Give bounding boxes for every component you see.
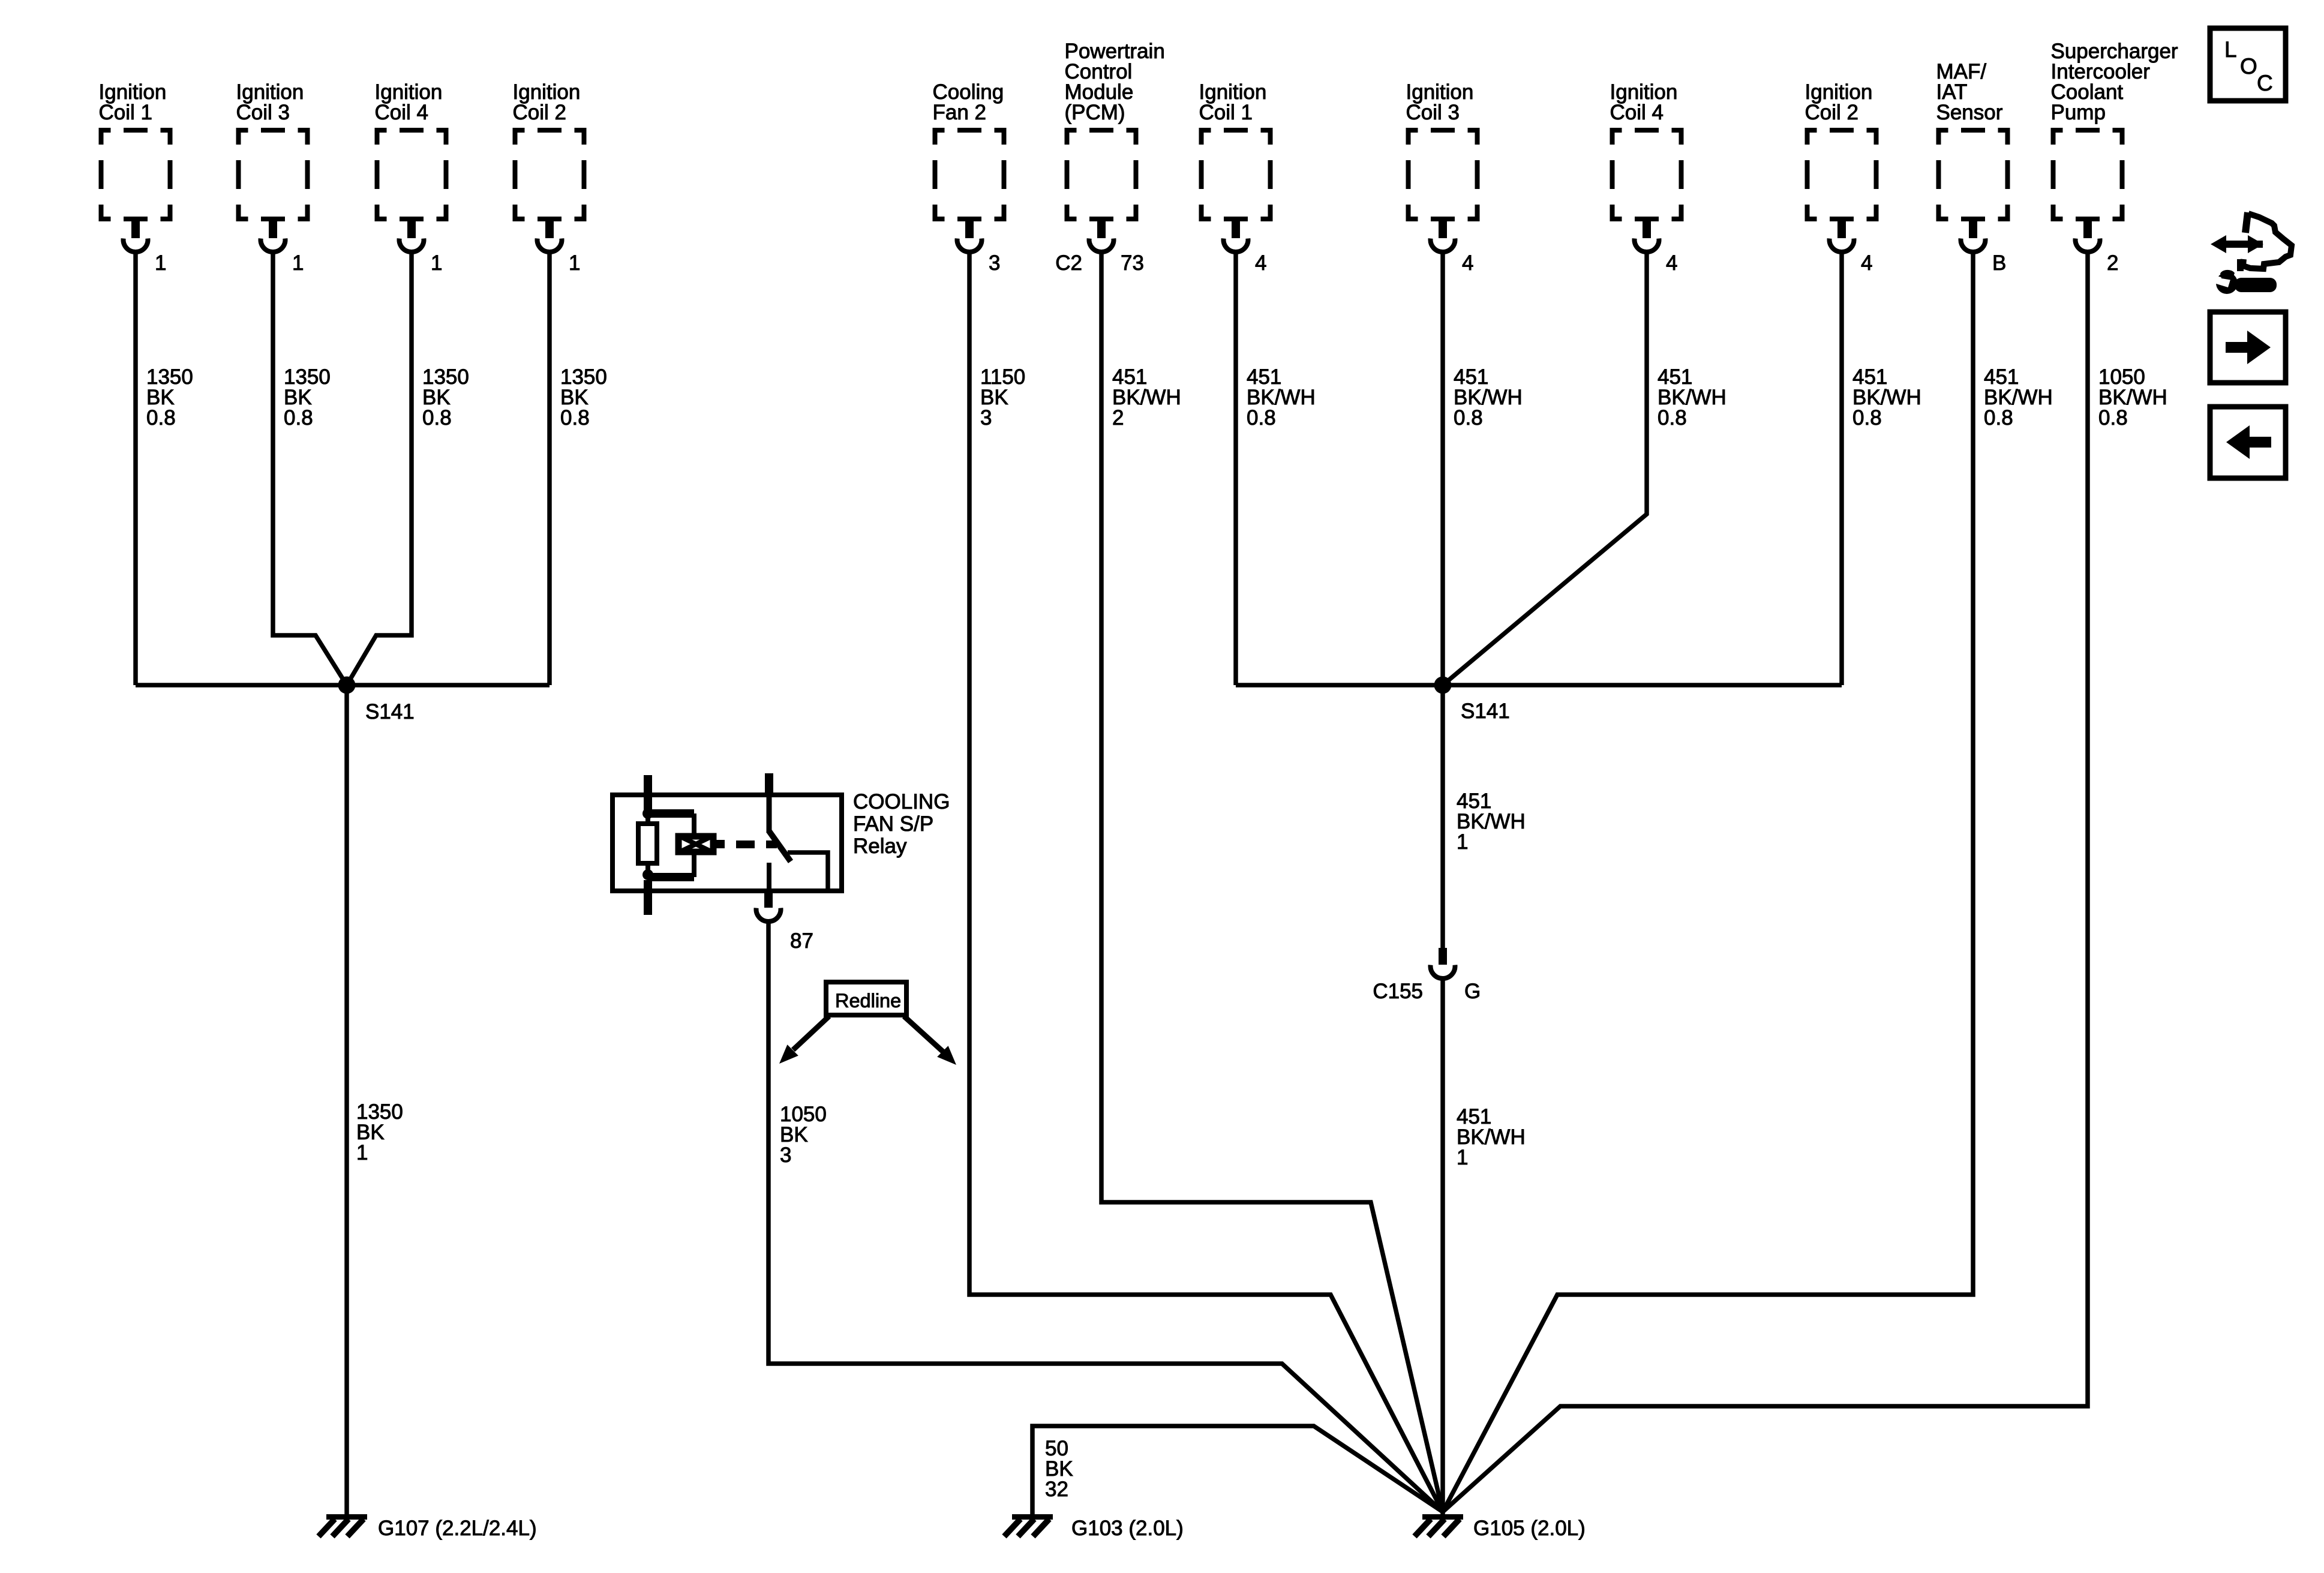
wire label 451 BK/WH 1 (above C155)	[1457, 789, 1526, 854]
Redline arrow right	[904, 1016, 956, 1065]
svg-text:0.8: 0.8	[1658, 406, 1687, 430]
svg-text:1: 1	[292, 251, 304, 275]
connector pin 1 of Ignition Coil 4	[400, 221, 443, 275]
legend box: arrow left (continued from previous page)	[2210, 407, 2286, 478]
svg-text:Coil 3: Coil 3	[236, 101, 290, 124]
svg-text:0.8: 0.8	[1984, 406, 2013, 430]
svg-text:FAN S/P: FAN S/P	[853, 812, 933, 836]
wire from ignition coil 1 pin 4 down to S141 level	[1233, 253, 1238, 685]
svg-text:1: 1	[431, 251, 442, 275]
connector pin 73 of Powertrain Control Module (PCM)	[1055, 221, 1144, 275]
wire 1050 BK/WH 0.8 from supercharger intercooler coolant pump to G105	[1443, 253, 2088, 1512]
svg-text:C2: C2	[1055, 251, 1082, 275]
svg-text:S141: S141	[1461, 700, 1510, 723]
connector pin 4 of Ignition Coil 2	[1830, 221, 1873, 275]
component box: Ignition Coil 4 (x=2745)	[1610, 80, 1684, 221]
LOC legend box	[2210, 28, 2286, 101]
wire 451 BK/WH 0.8 from MAF/IAT sensor to G105	[1443, 253, 1973, 1512]
relay left pin through box bottom	[644, 880, 652, 915]
connector pin 1 of Ignition Coil 3	[260, 221, 304, 275]
component box: MAF/ IAT Sensor (x=3289)	[1936, 60, 2010, 221]
relay switch: fixed conductor from top pin	[767, 795, 772, 831]
relay junction dot lower	[642, 869, 653, 880]
component box: Ignition Coil 3 (x=2405)	[1406, 80, 1480, 221]
resistor inside relay	[638, 813, 657, 875]
ground G103 (2.0L)	[1004, 1514, 1184, 1540]
label S141 (right)	[1461, 700, 1510, 723]
in-line connector C155 pin G	[1373, 948, 1481, 1003]
component box: Ignition Coil 4 (x=686)	[375, 80, 449, 221]
Redline callout box	[826, 982, 906, 1015]
relay pin stub top-right (pin 30)	[765, 773, 773, 795]
connector pin 2 of Supercharger Intercooler Coolant Pump	[2076, 221, 2119, 275]
svg-text:G105 (2.0L): G105 (2.0L)	[1473, 1517, 1586, 1540]
relay common contact down to pin 87	[767, 863, 771, 891]
svg-text:C155: C155	[1373, 980, 1423, 1003]
svg-text:G: G	[1464, 980, 1481, 1003]
wire label 1350 BK 0.8	[422, 365, 469, 430]
svg-text:4: 4	[1462, 251, 1473, 275]
svg-text:Coil 2: Coil 2	[513, 101, 566, 124]
svg-text:L: L	[2224, 37, 2237, 62]
svg-text:Coil 2: Coil 2	[1805, 101, 1858, 124]
connector pin B of MAF/ IAT Sensor	[1961, 221, 2007, 275]
label COOLING FAN S/P Relay	[853, 790, 950, 858]
wire label 451 BK/WH 2	[1112, 365, 1181, 430]
svg-text:B: B	[1992, 251, 2006, 275]
wire label 1350 BK 0.8	[284, 365, 331, 430]
connector pin 4 of Ignition Coil 1	[1223, 221, 1266, 275]
relay coil branch: bottom wire	[648, 855, 694, 881]
wire 451 BK/WH 1 from C155 to G105	[1440, 980, 1445, 1517]
svg-text:0.8: 0.8	[560, 406, 590, 430]
svg-text:G107 (2.2L/2.4L): G107 (2.2L/2.4L)	[378, 1517, 537, 1540]
relay junction dot upper	[642, 808, 653, 819]
svg-text:Sensor: Sensor	[1936, 101, 2003, 124]
relay left pin conductor inside box	[644, 795, 652, 813]
wire 1050 BK 3 from relay pin 87 to G105	[768, 923, 1443, 1512]
wire label 1150 BK 3	[980, 365, 1025, 430]
wire label 451 BK/WH 0.8	[1454, 365, 1523, 430]
svg-text:32: 32	[1045, 1478, 1068, 1501]
wire label 451 BK/WH 0.8	[1247, 365, 1316, 430]
wire label 1050 BK 3	[780, 1103, 827, 1167]
svg-text:1: 1	[1457, 830, 1468, 854]
wire 1350 BK 1 from S141 to G107	[344, 685, 349, 1517]
component box: Ignition Coil 2 (x=916)	[513, 80, 587, 221]
relay switch contact L to box bottom	[788, 852, 828, 888]
svg-text:0.8: 0.8	[1852, 406, 1882, 430]
ground G105 (2.0L)	[1415, 1514, 1586, 1540]
svg-text:1: 1	[356, 1141, 368, 1164]
legend box: arrow right (continued on next page)	[2210, 312, 2286, 383]
svg-text:4: 4	[1861, 251, 1872, 275]
svg-text:1: 1	[155, 251, 166, 275]
horizontal bus wire into splice S141 (right)	[1236, 683, 1842, 688]
relay pin 87 connector	[756, 891, 813, 953]
svg-text:S141: S141	[365, 700, 415, 724]
svg-text:Redline: Redline	[835, 990, 901, 1011]
connector pin 1 of Ignition Coil 1	[124, 221, 167, 275]
component box: Powertrain Control Module (PCM) (x=1836)	[1065, 40, 1165, 221]
wire label 50 BK 32	[1045, 1437, 1073, 1501]
wire 1150 BK 3 from cooling fan 2 to G105	[969, 253, 1443, 1512]
wire from ignition coil 1 pin 1 down to S141 level	[133, 253, 138, 685]
relay switch blade (open)	[768, 830, 791, 861]
svg-text:2: 2	[2107, 251, 2118, 275]
svg-text:73: 73	[1121, 251, 1144, 275]
connector pin 4 of Ignition Coil 4	[1635, 221, 1678, 275]
svg-text:3: 3	[980, 406, 992, 430]
relay pin stub top-left (pin 85)	[644, 775, 652, 795]
svg-text:Relay: Relay	[853, 834, 907, 858]
svg-text:O: O	[2240, 54, 2257, 79]
wire label 451 BK/WH 0.8	[1658, 365, 1727, 430]
svg-text:0.8: 0.8	[1454, 406, 1483, 430]
component box: Supercharger Intercooler Coolant Pump (x=3480)	[2051, 40, 2178, 221]
relay coil branch: top wire	[648, 809, 694, 834]
wire from ignition coil 4 pin 4 diagonal into S141	[1443, 253, 1647, 685]
svg-text:1: 1	[1457, 1146, 1468, 1169]
wire from ignition coil 3 pin 1 with jog into S141	[273, 253, 347, 685]
wire from ignition coil 2 pin 1 down to S141 level	[547, 253, 552, 685]
service/repair icon: double arrow, part outline and wrench	[2211, 212, 2292, 294]
wire label 451 BK/WH 0.8	[1984, 365, 2053, 430]
svg-text:G103 (2.0L): G103 (2.0L)	[1071, 1517, 1184, 1540]
component box: Cooling Fan 2 (x=1616)	[933, 80, 1007, 221]
svg-text:0.8: 0.8	[284, 406, 313, 430]
splice S141 (left) junction dot	[338, 677, 356, 694]
wire label 451 BK/WH 0.8	[1852, 365, 1921, 430]
wire 451 BK/WH 2 from PCM to G105	[1101, 253, 1443, 1512]
connector pin 3 of Cooling Fan 2	[957, 221, 1001, 275]
svg-text:1: 1	[569, 251, 580, 275]
svg-text:Coil 4: Coil 4	[375, 101, 428, 124]
component box: Ignition Coil 1 (x=2060)	[1199, 80, 1273, 221]
svg-text:4: 4	[1255, 251, 1266, 275]
component box: Ignition Coil 2 (x=3070)	[1805, 80, 1879, 221]
svg-text:Fan 2: Fan 2	[933, 101, 987, 124]
wire from ignition coil 4 pin 1 with jog into S141	[347, 253, 412, 685]
svg-text:Coil 1: Coil 1	[99, 101, 152, 124]
svg-text:Pump: Pump	[2051, 101, 2106, 124]
wire label 1350 BK 0.8	[146, 365, 193, 430]
svg-text:0.8: 0.8	[146, 406, 176, 430]
Redline arrow left	[779, 1016, 829, 1064]
svg-text:COOLING: COOLING	[853, 790, 950, 813]
component box: Ignition Coil 1 (x=226)	[99, 80, 173, 221]
wire 50 BK 32 from G103 to G105 bundle	[1032, 1426, 1443, 1517]
connector pin 4 of Ignition Coil 3	[1431, 221, 1474, 275]
splice S141 (right) junction dot	[1434, 677, 1452, 694]
wire label 1350 BK 0.8	[560, 365, 607, 430]
svg-text:87: 87	[790, 929, 813, 953]
svg-text:Coil 3: Coil 3	[1406, 101, 1460, 124]
svg-text:Coil 1: Coil 1	[1199, 101, 1253, 124]
relay actuation dashed line	[716, 840, 777, 848]
wire from ignition coil 3 pin 4 through S141 to C155	[1440, 253, 1445, 948]
wire from ignition coil 2 pin 4 down to S141 level	[1839, 253, 1844, 685]
horizontal bus wire into splice S141 (left)	[136, 683, 550, 688]
ground G107 (2.2L/2.4L)	[319, 1514, 537, 1540]
relay coil (box with X)	[677, 835, 714, 853]
svg-text:4: 4	[1666, 251, 1677, 275]
svg-text:0.8: 0.8	[1247, 406, 1276, 430]
wire label 1350 BK 1	[356, 1100, 403, 1164]
svg-text:C: C	[2257, 71, 2273, 95]
wire label 451 BK/WH 1 (below C155)	[1457, 1105, 1526, 1169]
component box: Ignition Coil 3 (x=455)	[236, 80, 310, 221]
relay COOLING FAN S/P: outline box	[612, 795, 842, 891]
svg-text:2: 2	[1112, 406, 1124, 430]
svg-text:3: 3	[780, 1143, 791, 1167]
svg-text:(PCM): (PCM)	[1065, 101, 1125, 124]
svg-text:Coil 4: Coil 4	[1610, 101, 1664, 124]
wire label 1050 BK/WH 0.8	[2098, 365, 2167, 430]
svg-text:0.8: 0.8	[422, 406, 452, 430]
svg-text:3: 3	[989, 251, 1000, 275]
label S141 (left)	[365, 700, 415, 724]
connector pin 1 of Ignition Coil 2	[537, 221, 580, 275]
svg-text:0.8: 0.8	[2098, 406, 2128, 430]
